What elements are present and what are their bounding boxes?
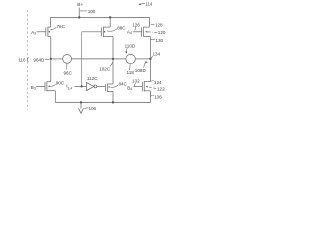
wire rail right drop to A4 transistor source bbox=[148, 17, 150, 27]
wire rail left drop to 76C source bbox=[50, 17, 52, 27]
svg-text:B3: B3 bbox=[31, 85, 36, 91]
transistor B4 (bottom right) bbox=[142, 81, 150, 91]
transistor 88C bbox=[101, 27, 113, 37]
svg-text:112C: 112C bbox=[87, 76, 98, 81]
node inverter input junction bbox=[80, 85, 82, 87]
node mid-line left junction bbox=[50, 58, 52, 60]
leader 88C bbox=[107, 29, 117, 31]
svg-text:96C: 96C bbox=[64, 70, 73, 75]
wire B+ stem bbox=[78, 8, 80, 18]
wire input A3 bbox=[37, 31, 46, 33]
leader 126 bbox=[135, 27, 136, 31]
leader 130 tilde bbox=[151, 38, 155, 41]
leader 134 bbox=[151, 56, 153, 58]
svg-text:136: 136 bbox=[154, 94, 162, 99]
wire 84C drain drop bbox=[112, 92, 114, 103]
leader 964D tilde bbox=[45, 58, 49, 61]
leader 100 bbox=[80, 10, 87, 12]
leader 96C bbox=[66, 64, 68, 70]
svg-text:116: 116 bbox=[18, 58, 26, 63]
svg-text:76C: 76C bbox=[57, 24, 66, 29]
svg-text:A4: A4 bbox=[127, 29, 132, 35]
svg-text:100: 100 bbox=[88, 9, 96, 14]
leader 90C bbox=[50, 84, 56, 86]
current source 110D bbox=[126, 54, 135, 63]
svg-text:114: 114 bbox=[145, 2, 152, 7]
svg-text:118: 118 bbox=[127, 70, 135, 75]
node 84C rail junction bbox=[112, 101, 114, 103]
wire B4 drain drop bbox=[149, 91, 151, 103]
wire 88C gate feedback elbow bbox=[82, 31, 102, 33]
node ground junction bbox=[80, 101, 82, 103]
transistor A4 (top right) bbox=[142, 27, 151, 37]
svg-text:120: 120 bbox=[158, 30, 166, 35]
wire inverter output bbox=[97, 85, 106, 87]
leader 110D arrow bbox=[126, 48, 127, 51]
transistor 90C bbox=[45, 81, 55, 91]
wire B+ top rail bbox=[51, 16, 150, 18]
leader 128 bbox=[151, 24, 155, 26]
leader 116 bracket bbox=[27, 57, 28, 62]
leader 136 tilde bbox=[150, 94, 153, 97]
leader 84C bbox=[111, 85, 119, 87]
svg-text:106: 106 bbox=[88, 106, 96, 111]
wire 88C source lead bbox=[109, 17, 111, 27]
node mid-line right junction bbox=[149, 58, 151, 60]
node B+ junction bbox=[78, 16, 80, 18]
svg-text:110D: 110D bbox=[125, 44, 136, 49]
svg-text:128: 128 bbox=[155, 22, 163, 27]
leader 106 tilde bbox=[84, 108, 88, 109]
svg-text:108D: 108D bbox=[135, 68, 147, 73]
wire bottom rail bbox=[55, 101, 150, 103]
svg-text:I3,4: I3,4 bbox=[66, 84, 72, 91]
leader 76C bbox=[51, 27, 57, 29]
svg-text:90C: 90C bbox=[56, 80, 65, 85]
leader 114 arrow bbox=[140, 2, 145, 5]
svg-text:126: 126 bbox=[132, 23, 140, 28]
wire feedback vertical bbox=[81, 32, 83, 87]
current source 96C bbox=[63, 55, 72, 64]
wire input B3 bbox=[36, 85, 45, 87]
svg-text:132: 132 bbox=[132, 79, 140, 84]
svg-text:122: 122 bbox=[157, 87, 165, 92]
svg-text:B+: B+ bbox=[77, 2, 83, 8]
transistor 84C bbox=[105, 84, 113, 92]
inverter 112C bbox=[86, 83, 96, 91]
ground symbol 106 bbox=[79, 102, 84, 113]
svg-text:134: 134 bbox=[153, 52, 161, 57]
wire 90C drain drop bbox=[54, 91, 56, 103]
leader 120 dash-dot bbox=[148, 31, 158, 33]
transistor 76C bbox=[46, 27, 51, 37]
wire inverter input bbox=[75, 85, 87, 87]
wire mid line right segment bbox=[135, 58, 150, 60]
node 88C source junction bbox=[109, 16, 111, 18]
leader 124 tilde bbox=[150, 80, 153, 83]
svg-text:88C: 88C bbox=[117, 25, 126, 30]
leader 108D arrow bbox=[144, 62, 146, 67]
leader 122 dash-dot bbox=[149, 87, 156, 88]
wire input B4 bbox=[133, 85, 142, 87]
wire 76C drain to 90C vertical bbox=[50, 37, 52, 82]
node mid-line center junction bbox=[112, 58, 114, 60]
leader 118 bbox=[129, 64, 132, 70]
svg-text:130: 130 bbox=[155, 38, 163, 43]
svg-text:102C: 102C bbox=[99, 66, 111, 71]
svg-text:964D: 964D bbox=[33, 57, 45, 62]
leader 132 bbox=[134, 83, 135, 86]
svg-text:124: 124 bbox=[154, 80, 162, 85]
wire center vertical 88C drain to 84C bbox=[112, 37, 114, 84]
wire right bus bbox=[149, 37, 151, 82]
wire mid line center segment bbox=[72, 58, 126, 60]
wire input A4 bbox=[133, 31, 142, 33]
svg-text:A3: A3 bbox=[31, 30, 36, 36]
leader 102C bbox=[110, 62, 113, 66]
boundary dashed line 116 bbox=[26, 10, 28, 110]
svg-text:B4: B4 bbox=[127, 85, 132, 91]
wire mid line left segment bbox=[49, 58, 62, 60]
